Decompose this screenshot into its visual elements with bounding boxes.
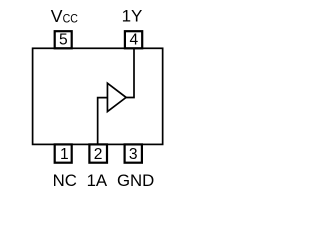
wire from buffer output to pin 4 (1Y) [126,48,134,97]
svg-text:4: 4 [129,32,138,49]
svg-text:NC: NC [53,171,77,190]
svg-text:GND: GND [117,171,154,190]
pin 2 box [89,144,107,162]
svg-text:1A: 1A [87,171,108,190]
svg-text:1Y: 1Y [122,7,143,26]
pin 5 box [55,31,72,48]
svg-text:5: 5 [59,32,68,49]
wire from pin 2 (1A) to buffer input [98,98,108,145]
svg-text:1: 1 [60,146,69,163]
pin 3 box [125,144,142,162]
buffer gate triangle [107,83,126,111]
pin 4 box [125,31,142,48]
pin 1 box [55,144,72,162]
svg-text:3: 3 [129,146,138,163]
IC package body U1 [33,48,163,144]
svg-text:CC: CC [63,12,78,26]
svg-text:2: 2 [94,146,103,163]
svg-text:V: V [51,6,63,26]
